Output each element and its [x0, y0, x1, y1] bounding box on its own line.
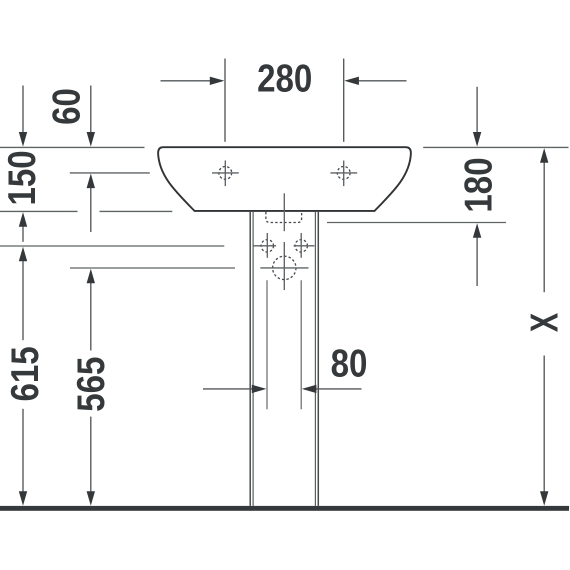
- svg-text:565: 565: [70, 357, 113, 412]
- faucet hole right: dashed circle + cross: [330, 161, 357, 187]
- dimension label X (rotated): [524, 313, 567, 333]
- dimension X: vertical line with text gap: [540, 148, 548, 506]
- pedestal right wall (double line): [315, 212, 318, 506]
- reference line: basin bottom level, left: [0, 210, 172, 212]
- dimension 150: top arrow (down) at basin top: [19, 86, 27, 147]
- dimension 280: left arrow: [161, 77, 225, 85]
- drain pipe hidden line right: [300, 280, 302, 409]
- dashed mounting recess at pedestal top: [266, 212, 302, 223]
- dimension label 60 (rotated): [45, 88, 88, 125]
- svg-text:X: X: [524, 313, 567, 333]
- dimension 280: extension line left: [224, 59, 226, 142]
- reference line: basin top, right segment: [423, 146, 568, 148]
- dimension 180: bottom arrow (up) at recess bottom: [473, 223, 481, 286]
- pedestal left wall (double line): [250, 212, 253, 506]
- svg-text:615: 615: [4, 346, 47, 401]
- dimension 150: bottom arrow (up) at basin bottom: [19, 212, 27, 242]
- washbasin outline: [158, 147, 411, 211]
- reference line: recess bottom level, right: [327, 222, 506, 224]
- dimension 615: vertical line with text gap: [19, 247, 27, 506]
- dimension 60: bottom arrow (up) at faucet level: [87, 174, 95, 233]
- reference line: fixing hole level, left: [0, 245, 224, 247]
- fixing hole right: dashed circle + cross: [294, 233, 315, 258]
- svg-text:180: 180: [457, 157, 500, 212]
- svg-text:80: 80: [331, 342, 368, 385]
- reference line: basin top, left segment: [0, 146, 145, 148]
- reference line: drain level, left: [70, 267, 235, 269]
- reference line: faucet level, left: [70, 172, 150, 174]
- fixing hole left: dashed circle + cross: [253, 233, 276, 258]
- drain hole: dashed circle + horizontal cross line: [260, 256, 308, 279]
- svg-text:60: 60: [45, 88, 88, 125]
- dimension 80: right arrow: [302, 385, 362, 393]
- dimension 565: vertical line with text gap: [87, 269, 95, 506]
- dimension label 150 (rotated): [1, 150, 44, 205]
- dimension 180: top arrow (down) at basin top: [473, 87, 481, 147]
- dimension label 280: [257, 57, 312, 100]
- drain pipe hidden line left (80 wide): [266, 280, 268, 409]
- dimension 80: left arrow: [203, 385, 266, 393]
- dimension label 565 (rotated): [70, 357, 113, 412]
- svg-text:280: 280: [257, 57, 312, 100]
- dimension 280: extension line right: [343, 59, 345, 142]
- dimension 60: top arrow (down) at basin top: [87, 86, 95, 147]
- dimension 280: right arrow: [344, 77, 406, 85]
- vertical centerline of pedestal: [283, 193, 285, 290]
- dimension label 180 (rotated): [457, 157, 500, 212]
- dimension label 80: [331, 342, 368, 385]
- faucet hole left: dashed circle + cross: [212, 161, 239, 187]
- floor line: [0, 506, 569, 511]
- dimension label 615 (rotated): [4, 346, 47, 401]
- svg-text:150: 150: [1, 150, 44, 205]
